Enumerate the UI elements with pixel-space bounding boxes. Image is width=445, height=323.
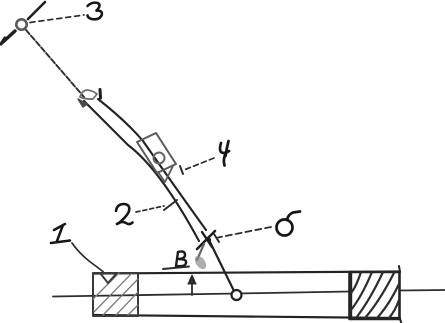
pivot at tube centerline (232, 290, 242, 300)
label 3 (88, 3, 102, 20)
leader 6 arrow tick (214, 234, 219, 242)
label B (letter) (176, 251, 186, 266)
label B underline (163, 267, 189, 270)
wire tube top line (93, 272, 400, 274)
leader line to 4 (dashed) (184, 158, 214, 170)
wire rod lower link to pivot (210, 242, 235, 293)
leader line to 3 (dashed) (30, 15, 84, 23)
leader 2 arrow tick (164, 200, 177, 210)
leader line to 1 (solid curved) (72, 243, 103, 272)
leader 1 arrowhead (100, 273, 117, 283)
node 1 plug left (hatched) (93, 273, 138, 316)
leader 4 arrow tick (180, 166, 183, 174)
leader line to 6 (dashed) (218, 227, 271, 238)
wire tube bottom line (93, 315, 400, 318)
wire centerline of tube (53, 292, 350, 297)
label 2 (116, 204, 133, 224)
label 4 (220, 141, 229, 166)
label 6 (277, 212, 301, 236)
dimension arrow B (188, 244, 208, 295)
pivot 3 circle with cross (1, 2, 45, 44)
wire cord from pivot 3 to rod top (26, 30, 84, 97)
rod 2 body (two lines) (98, 99, 206, 230)
leader line to 2 (dashed) (136, 206, 164, 212)
wire centerline right stub (400, 289, 445, 292)
rod 2 top end cap (78, 90, 101, 108)
node 2 plug right (hatched) (350, 266, 403, 323)
node attachment X at rod bottom (197, 231, 215, 249)
label 1 (51, 224, 70, 243)
clamp 4 on rod (137, 133, 176, 182)
